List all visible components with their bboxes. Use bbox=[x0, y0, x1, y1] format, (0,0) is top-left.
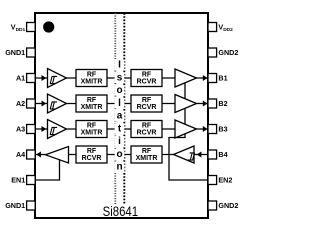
svg-text:o: o bbox=[116, 85, 122, 96]
arrowhead output A4 bbox=[36, 152, 41, 158]
pin 2 GND1 (left) bbox=[27, 48, 36, 57]
wire EN2 enable net (pin EN2 to B1/B2/B3 buffers) bbox=[169, 80, 208, 180]
pin 6 A4 (left) bbox=[27, 150, 36, 159]
RF receiver block channel 2 (right) bbox=[131, 95, 162, 112]
svg-text:XMITR: XMITR bbox=[136, 155, 158, 162]
svg-text:B4: B4 bbox=[218, 150, 227, 159]
arrowhead output B2 bbox=[203, 101, 208, 107]
svg-text:A4: A4 bbox=[16, 150, 25, 159]
RF receiver block channel 3 (right) bbox=[131, 121, 162, 138]
svg-text:XMITR: XMITR bbox=[81, 130, 103, 137]
IC package body U1 (Si8641) bbox=[35, 13, 208, 218]
svg-text:A1: A1 bbox=[16, 74, 25, 83]
svg-text:l: l bbox=[118, 98, 121, 109]
arrowhead output B1 bbox=[203, 75, 208, 81]
RF transmitter block channel 3 (left) bbox=[76, 121, 107, 138]
svg-text:RCVR: RCVR bbox=[137, 130, 157, 137]
svg-text:Si8641: Si8641 bbox=[103, 204, 139, 219]
svg-text:RF: RF bbox=[87, 122, 97, 129]
arrowhead input A3 bbox=[42, 126, 47, 132]
svg-text:RCVR: RCVR bbox=[137, 79, 157, 86]
output buffer channel 2 B2 bbox=[175, 95, 197, 113]
pin 8 GND1 (left) bbox=[27, 201, 36, 210]
svg-text:i: i bbox=[118, 136, 121, 147]
svg-text:RCVR: RCVR bbox=[82, 155, 102, 162]
svg-text:o: o bbox=[116, 149, 122, 160]
wire channel 1 (A1 to B1) bbox=[35, 77, 208, 79]
input buffer (schmitt) channel 4 B4 (points left) bbox=[174, 146, 195, 163]
isolation barrier label "Isolation" (vertical) bbox=[115, 60, 125, 173]
svg-text:A3: A3 bbox=[16, 125, 25, 134]
svg-text:RF: RF bbox=[142, 71, 152, 78]
svg-text:VDD1: VDD1 bbox=[11, 23, 26, 33]
RF receiver block channel 1 (right) bbox=[131, 70, 162, 87]
svg-text:RF: RF bbox=[142, 122, 152, 129]
svg-text:GND1: GND1 bbox=[5, 48, 25, 57]
RF transmitter block channel 1 (left) bbox=[76, 70, 107, 87]
svg-text:I: I bbox=[118, 60, 121, 71]
pin 15 EN2 (right) bbox=[208, 176, 217, 185]
svg-text:GND2: GND2 bbox=[218, 48, 238, 57]
svg-text:s: s bbox=[117, 72, 123, 83]
pin 11 B1 (right) bbox=[208, 74, 217, 83]
pin 9 VDD2 (right) bbox=[208, 23, 217, 32]
isolation barrier dashed line (left) bbox=[114, 13, 116, 204]
svg-text:RCVR: RCVR bbox=[137, 104, 157, 111]
pin 1 indicator dot bbox=[43, 21, 54, 32]
wire channel 2 (A2 to B2) bbox=[35, 103, 208, 105]
isolation barrier dashed line (right) bbox=[123, 13, 125, 204]
pin 7 EN1 (left) bbox=[27, 176, 36, 185]
svg-text:n: n bbox=[116, 162, 122, 173]
RF transmitter block channel 2 (left) bbox=[76, 95, 107, 112]
pin 14 B4 (right) bbox=[208, 150, 217, 159]
pin 3 A1 (left) bbox=[27, 74, 36, 83]
svg-text:RF: RF bbox=[87, 71, 97, 78]
pin 13 B3 (right) bbox=[208, 125, 217, 134]
output buffer channel 3 B3 bbox=[175, 120, 197, 138]
svg-text:RF: RF bbox=[87, 97, 97, 104]
svg-text:EN1: EN1 bbox=[11, 176, 25, 185]
RF receiver block channel 4 (left) bbox=[76, 146, 107, 163]
pin 12 B2 (right) bbox=[208, 99, 217, 108]
svg-text:B2: B2 bbox=[218, 99, 227, 108]
svg-text:GND2: GND2 bbox=[218, 201, 238, 210]
svg-text:RF: RF bbox=[142, 148, 152, 155]
RF transmitter block channel 4 (right) bbox=[131, 146, 162, 163]
svg-text:B3: B3 bbox=[218, 125, 227, 134]
pin 5 A3 (left) bbox=[27, 125, 36, 134]
output buffer channel 1 B1 bbox=[175, 69, 197, 87]
output buffer channel 4 A4 (points left) bbox=[46, 147, 69, 164]
input buffer (schmitt) channel 2 A2 bbox=[48, 94, 67, 113]
arrowhead output B3 bbox=[203, 126, 208, 132]
wire EN1 enable net (pin EN1 to A4 buffer) bbox=[35, 156, 60, 180]
pin 16 GND2 (right) bbox=[208, 201, 217, 210]
pin 1 VDD1 (left) bbox=[27, 23, 36, 32]
input buffer (schmitt) channel 3 A3 bbox=[48, 120, 67, 139]
svg-text:RF: RF bbox=[87, 148, 97, 155]
svg-text:XMITR: XMITR bbox=[81, 79, 103, 86]
svg-text:EN2: EN2 bbox=[218, 176, 232, 185]
svg-text:A2: A2 bbox=[16, 99, 25, 108]
input buffer (schmitt) channel 1 A1 bbox=[48, 69, 67, 88]
svg-text:VDD2: VDD2 bbox=[218, 23, 233, 33]
svg-text:B1: B1 bbox=[218, 74, 227, 83]
pin 4 A2 (left) bbox=[27, 99, 36, 108]
wire channel 4 (B4 to A4) bbox=[35, 154, 208, 156]
arrowhead input B4 bbox=[197, 152, 202, 158]
wire channel 3 (A3 to B3) bbox=[35, 128, 208, 130]
arrowhead input A2 bbox=[42, 101, 47, 107]
svg-text:a: a bbox=[117, 111, 123, 122]
svg-text:GND1: GND1 bbox=[5, 201, 25, 210]
pin 10 GND2 (right) bbox=[208, 48, 217, 57]
svg-text:XMITR: XMITR bbox=[81, 104, 103, 111]
svg-text:RF: RF bbox=[142, 97, 152, 104]
arrowhead input A1 bbox=[42, 75, 47, 81]
